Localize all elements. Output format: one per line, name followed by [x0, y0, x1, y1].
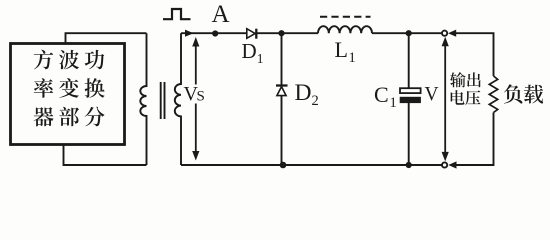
svg-text:C: C [374, 82, 389, 107]
Vs measurement double arrow [195, 45, 197, 153]
box: square-wave power converter unit [11, 44, 125, 145]
wire: D2 branch [281, 33, 283, 165]
svg-text:D: D [295, 80, 312, 106]
transformer primary winding [140, 33, 146, 165]
transformer secondary winding [175, 33, 181, 165]
svg-text:A: A [212, 1, 230, 28]
output voltage double arrow [444, 44, 446, 154]
wire: top terminal to load, with arrow into terminal [455, 33, 494, 76]
node A junction dot [212, 30, 218, 36]
wire: box bottom to transformer primary bottom [64, 145, 147, 166]
transformer core [161, 82, 165, 119]
capacitor C1 (electrolytic) [400, 88, 421, 103]
square pulse waveform symbol [163, 9, 191, 19]
svg-text:1: 1 [349, 50, 356, 66]
svg-text:V: V [425, 84, 439, 105]
svg-text:2: 2 [312, 93, 319, 109]
wire: C1 branch [408, 33, 410, 165]
dashed line above L1 [320, 16, 371, 18]
wire: box top to transformer primary top [66, 33, 147, 44]
svg-text:1: 1 [257, 51, 264, 66]
junction dot bottom of C1 branch [406, 162, 412, 168]
label 输出电压 (output voltage) [450, 72, 481, 105]
output terminal bottom (circle) [442, 162, 447, 167]
wire: load bottom to bottom terminal, with arrow into terminal [455, 113, 494, 166]
label 负载 (load) [504, 84, 523, 103]
label 方波功率变换器部分 (square-wave power converter section) [34, 50, 105, 127]
output terminal top (circle) [442, 31, 447, 36]
junction dot top of D2 branch [278, 30, 284, 36]
svg-text:L: L [335, 37, 348, 62]
junction dot top of C1 branch [406, 30, 412, 36]
diode D2 [276, 86, 288, 96]
junction dot bottom of D2 branch [280, 162, 287, 169]
svg-text:1: 1 [390, 95, 397, 111]
wire: secondary bottom rail [181, 164, 442, 166]
inductor L1 [318, 26, 372, 33]
wire: secondary top rail [181, 32, 442, 34]
svg-text:S: S [197, 89, 205, 105]
svg-text:D: D [242, 39, 257, 63]
diode D1 [247, 29, 256, 39]
current arrow on top rail [185, 30, 194, 37]
resistor RL (load zigzag) [489, 76, 497, 113]
